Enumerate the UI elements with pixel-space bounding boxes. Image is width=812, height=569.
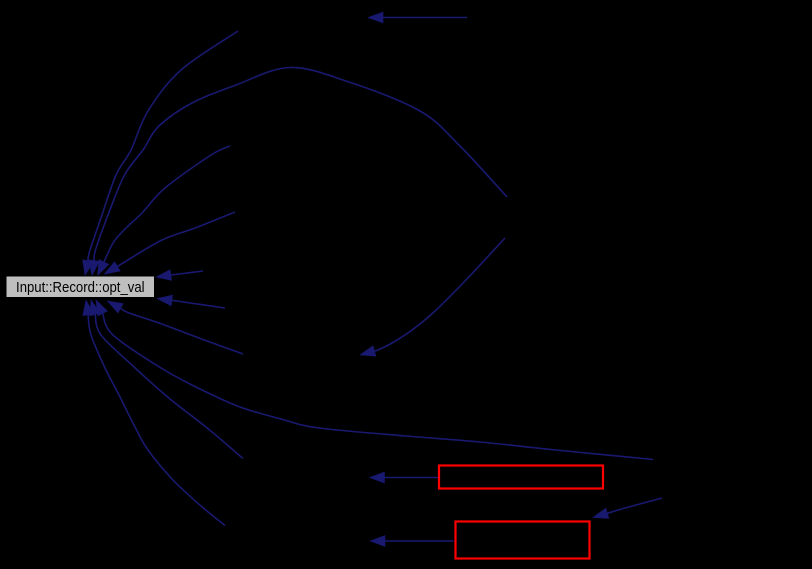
node red box 1 (truncated caller) — [439, 466, 603, 489]
edge A (caller, top-left arc) — [83, 31, 238, 276]
edge Ca (caller, bottom steep arc) — [83, 300, 225, 526]
edge R1 (short arrow into right edge upper) — [156, 270, 203, 281]
edge E (caller, short diagonal) — [105, 212, 236, 274]
edge B (caller via long top arc) — [89, 67, 507, 275]
edge Cb (caller, bottom mid arc) — [90, 300, 243, 459]
edge Cc (caller, long bottom sweep) — [96, 300, 653, 460]
node Input::Record::opt_val (current function, grey) — [6, 276, 155, 298]
edge T (top horizontal arrow) — [368, 12, 467, 23]
node red box 2 (truncated caller) — [456, 522, 590, 559]
edge r4 (caller, shallow bottom ray) — [108, 301, 244, 354]
edge R2 (short arrow into right edge lower) — [157, 295, 225, 308]
svg-text:Input::Record::opt_val: Input::Record::opt_val — [16, 280, 145, 296]
edge H1 (red box 1 to hidden node) — [370, 472, 439, 483]
edge D (caller, mid diagonal) — [98, 146, 231, 276]
edge G (far right into red box 2) — [593, 498, 662, 518]
edge H2 (red box 2 to hidden node) — [370, 536, 454, 547]
edge F (hidden node to hidden node) — [360, 238, 505, 356]
